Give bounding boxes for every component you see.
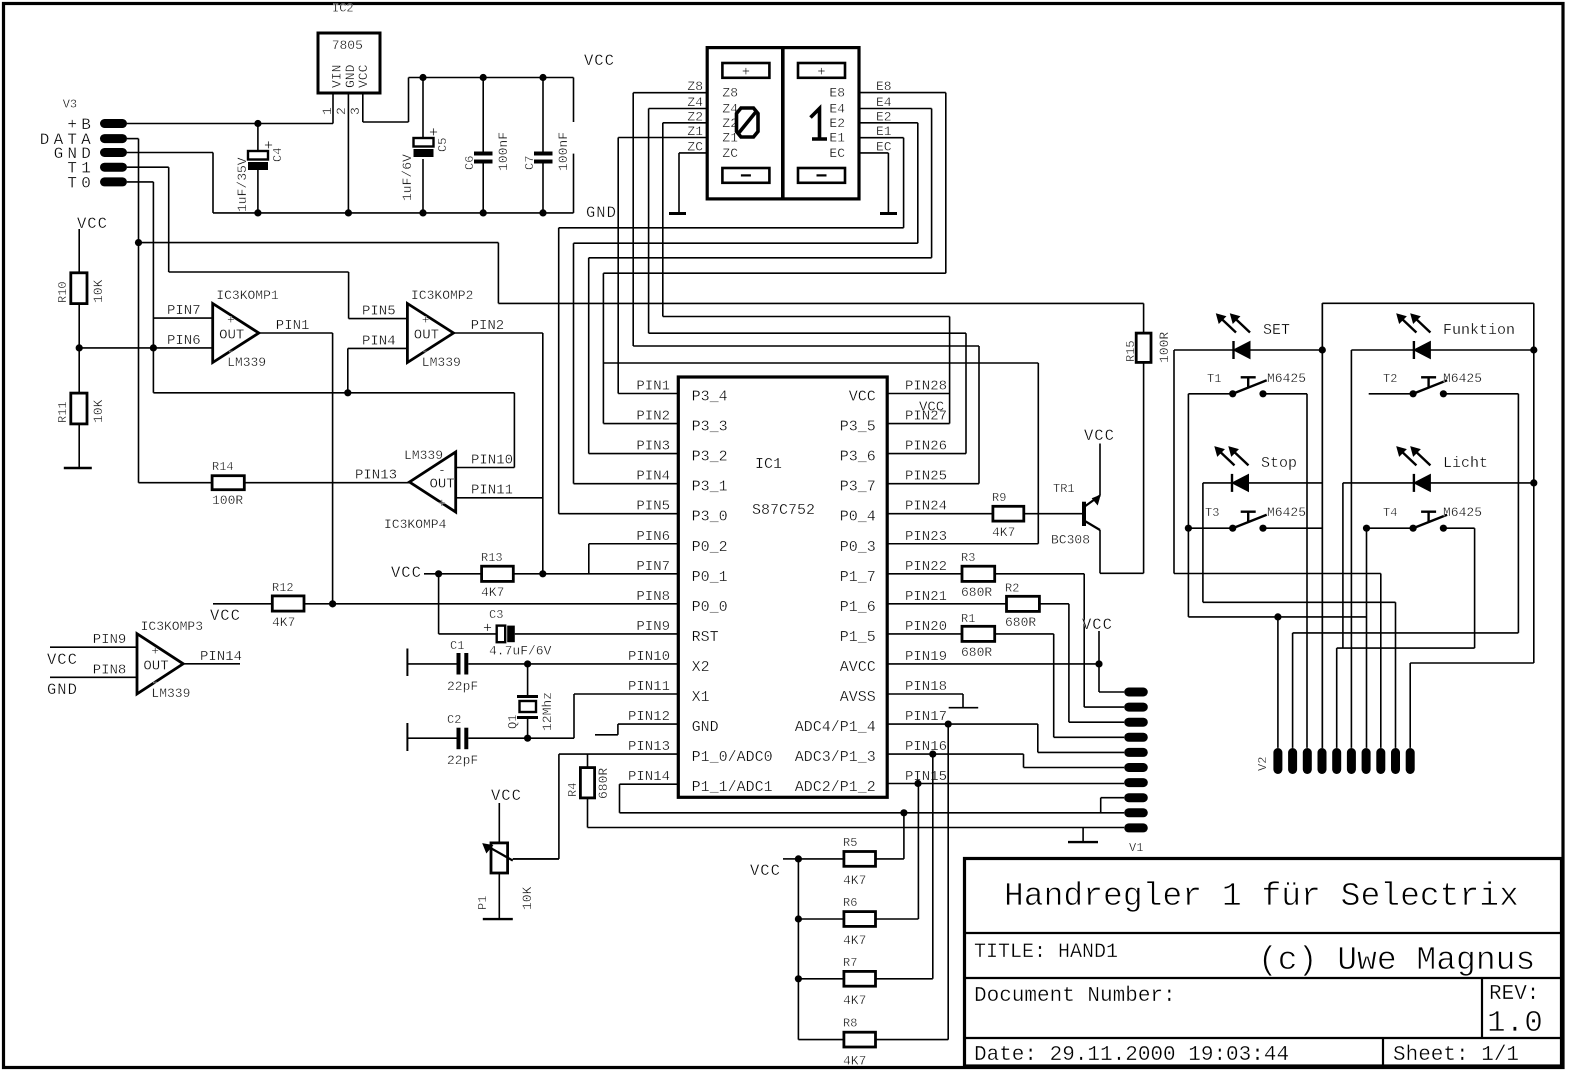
- svg-text:PIN13: PIN13: [628, 739, 670, 755]
- svg-text:PIN20: PIN20: [905, 619, 947, 635]
- svg-text:PIN26: PIN26: [905, 439, 947, 455]
- svg-text:SET: SET: [1263, 322, 1290, 339]
- svg-text:ZC: ZC: [722, 146, 738, 161]
- svg-text:T1: T1: [1207, 372, 1221, 386]
- svg-text:PIN23: PIN23: [905, 529, 947, 545]
- svg-text:10K: 10K: [91, 279, 106, 303]
- svg-text:IC3KOMP4: IC3KOMP4: [384, 517, 447, 532]
- svg-text:IC2: IC2: [332, 2, 354, 16]
- svg-text:PIN19: PIN19: [905, 649, 947, 665]
- svg-text:E8: E8: [829, 86, 845, 101]
- svg-text:M6425: M6425: [1443, 371, 1482, 386]
- svg-text:R7: R7: [843, 956, 857, 970]
- svg-text:+: +: [422, 313, 430, 328]
- svg-text:T3: T3: [1205, 506, 1219, 520]
- svg-text:R15: R15: [1124, 340, 1138, 362]
- svg-text:PIN22: PIN22: [905, 559, 947, 575]
- svg-text:PIN2: PIN2: [471, 318, 505, 334]
- svg-text:4K7: 4K7: [843, 1054, 866, 1069]
- svg-text:C4: C4: [271, 148, 285, 162]
- svg-text:P1_1/ADC1: P1_1/ADC1: [692, 779, 773, 796]
- svg-text:ADC4/P1_4: ADC4/P1_4: [795, 719, 876, 736]
- svg-text:P0_2: P0_2: [692, 539, 728, 556]
- svg-text:VCC: VCC: [356, 64, 371, 88]
- svg-text:PIN10: PIN10: [471, 453, 513, 469]
- svg-text:4K7: 4K7: [843, 933, 866, 948]
- svg-text:PIN10: PIN10: [628, 649, 670, 665]
- svg-text:100nF: 100nF: [556, 132, 571, 171]
- svg-text:PIN6: PIN6: [167, 333, 201, 349]
- svg-text:7805: 7805: [332, 38, 363, 53]
- svg-text:P3_4: P3_4: [692, 389, 728, 406]
- svg-text:E2: E2: [829, 116, 845, 131]
- svg-text:100nF: 100nF: [496, 132, 511, 171]
- svg-text:VCC: VCC: [849, 389, 876, 406]
- svg-text:PIN18: PIN18: [905, 679, 947, 695]
- svg-text:100R: 100R: [212, 493, 243, 508]
- svg-text:LM339: LM339: [227, 355, 266, 370]
- svg-text:Stop: Stop: [1261, 455, 1297, 472]
- svg-text:R2: R2: [1005, 582, 1019, 596]
- svg-text:PIN14: PIN14: [628, 769, 670, 785]
- svg-text:R10: R10: [56, 281, 70, 303]
- svg-text:PIN7: PIN7: [167, 303, 201, 319]
- svg-text:P3_1: P3_1: [692, 479, 728, 496]
- svg-text:VCC: VCC: [491, 787, 522, 805]
- svg-text:P3_6: P3_6: [840, 449, 876, 466]
- svg-text:E4: E4: [829, 102, 845, 117]
- svg-text:REV:: REV:: [1489, 983, 1539, 1006]
- svg-text:ADC3/P1_3: ADC3/P1_3: [795, 749, 876, 766]
- svg-text:PIN2: PIN2: [636, 409, 670, 425]
- svg-text:E1: E1: [876, 124, 892, 139]
- svg-text:R5: R5: [843, 836, 857, 850]
- svg-text:PIN4: PIN4: [362, 333, 396, 349]
- svg-text:X1: X1: [692, 689, 710, 706]
- svg-text:OUT: OUT: [414, 328, 439, 344]
- svg-text:P1_7: P1_7: [840, 569, 876, 586]
- svg-text:22pF: 22pF: [447, 753, 478, 768]
- svg-text:AVSS: AVSS: [840, 689, 876, 706]
- svg-text:IC3KOMP3: IC3KOMP3: [141, 619, 203, 634]
- svg-text:P0_3: P0_3: [840, 539, 876, 556]
- svg-text:P1_5: P1_5: [840, 629, 876, 646]
- svg-text:Document Number:: Document Number:: [974, 985, 1176, 1008]
- svg-text:VCC: VCC: [47, 651, 78, 669]
- svg-text:TITLE: HAND1: TITLE: HAND1: [974, 941, 1118, 964]
- svg-text:P0_4: P0_4: [840, 509, 876, 526]
- svg-text:RST: RST: [692, 629, 719, 646]
- svg-text:Handregler 1 für Selectrix: Handregler 1 für Selectrix: [1004, 878, 1519, 915]
- svg-text:P0_1: P0_1: [692, 569, 728, 586]
- svg-text:PIN8: PIN8: [636, 589, 670, 605]
- svg-text:4K7: 4K7: [481, 585, 504, 600]
- svg-text:E1: E1: [829, 131, 845, 146]
- svg-text:LM339: LM339: [404, 448, 443, 463]
- svg-text:1uF/35V: 1uF/35V: [235, 157, 250, 212]
- svg-text:PIN11: PIN11: [471, 483, 513, 499]
- svg-text:2: 2: [334, 107, 349, 115]
- svg-text:T4: T4: [1383, 506, 1397, 520]
- svg-text:PIN4: PIN4: [636, 469, 670, 485]
- svg-text:IC1: IC1: [755, 456, 782, 473]
- svg-text:Z8: Z8: [722, 86, 738, 101]
- svg-text:X2: X2: [692, 659, 710, 676]
- svg-text:Licht: Licht: [1443, 455, 1488, 472]
- svg-text:PIN28: PIN28: [905, 379, 947, 395]
- svg-text:IC3KOMP2: IC3KOMP2: [411, 288, 473, 303]
- svg-text:R14: R14: [212, 460, 234, 474]
- svg-text:R3: R3: [961, 551, 975, 565]
- svg-text:R6: R6: [843, 896, 857, 910]
- svg-text:4K7: 4K7: [843, 993, 866, 1008]
- svg-text:OUT: OUT: [219, 328, 244, 344]
- svg-text:R9: R9: [992, 491, 1006, 505]
- svg-text:1.0: 1.0: [1487, 1006, 1543, 1041]
- svg-text:+: +: [817, 65, 825, 81]
- svg-text:C3: C3: [489, 608, 503, 622]
- svg-text:PIN8: PIN8: [93, 662, 127, 678]
- svg-text:PIN9: PIN9: [93, 632, 127, 648]
- svg-text:PIN6: PIN6: [636, 529, 670, 545]
- svg-text:10K: 10K: [91, 399, 106, 423]
- svg-text:LM339: LM339: [151, 686, 190, 701]
- svg-text:Sheet: 1/1: Sheet: 1/1: [1393, 1044, 1519, 1067]
- svg-text:PIN12: PIN12: [628, 709, 670, 725]
- svg-text:680R: 680R: [961, 645, 992, 660]
- svg-text:BC308: BC308: [1051, 533, 1090, 548]
- svg-text:P3_2: P3_2: [692, 449, 728, 466]
- svg-text:12Mhz: 12Mhz: [540, 692, 555, 731]
- svg-text:R12: R12: [272, 581, 294, 595]
- svg-text:4K7: 4K7: [272, 615, 295, 630]
- svg-text:Funktion: Funktion: [1443, 322, 1515, 339]
- svg-text:680R: 680R: [596, 768, 611, 799]
- svg-text:C7: C7: [523, 156, 537, 170]
- svg-text:P3_3: P3_3: [692, 419, 728, 436]
- svg-text:T2: T2: [1383, 372, 1397, 386]
- svg-text:P0_0: P0_0: [692, 599, 728, 616]
- svg-text:Date: 29.11.2000 19:03:44: Date: 29.11.2000 19:03:44: [974, 1044, 1289, 1067]
- svg-text:R11: R11: [56, 401, 70, 423]
- svg-text:VCC: VCC: [1082, 616, 1113, 634]
- svg-text:PIN21: PIN21: [905, 589, 947, 605]
- svg-text:+: +: [438, 496, 446, 511]
- svg-text:+: +: [742, 65, 750, 81]
- svg-text:P3_0: P3_0: [692, 509, 728, 526]
- svg-text:M6425: M6425: [1267, 371, 1306, 386]
- svg-text:V3: V3: [63, 98, 77, 112]
- svg-text:3: 3: [348, 107, 363, 115]
- svg-text:1uF/6V: 1uF/6V: [400, 154, 415, 201]
- svg-text:+: +: [483, 621, 492, 638]
- svg-text:4K7: 4K7: [992, 525, 1015, 540]
- svg-text:Q1: Q1: [506, 715, 520, 729]
- svg-text:AVCC: AVCC: [840, 659, 876, 676]
- svg-text:PIN17: PIN17: [905, 709, 947, 725]
- svg-text:PIN24: PIN24: [905, 499, 947, 515]
- svg-text:PIN16: PIN16: [905, 739, 947, 755]
- svg-text:EC: EC: [829, 146, 845, 161]
- svg-text:+: +: [227, 313, 235, 328]
- svg-text:R13: R13: [481, 551, 503, 565]
- svg-text:GND: GND: [692, 719, 719, 736]
- svg-text:10K: 10K: [520, 886, 535, 910]
- svg-text:GND: GND: [47, 681, 78, 699]
- svg-text:M6425: M6425: [1267, 505, 1306, 520]
- svg-text:P3_5: P3_5: [840, 419, 876, 436]
- svg-text:GND: GND: [586, 204, 617, 222]
- svg-text:PIN1: PIN1: [636, 379, 670, 395]
- svg-text:IC3KOMP1: IC3KOMP1: [216, 288, 279, 303]
- svg-text:VCC: VCC: [1084, 427, 1115, 445]
- svg-text:M6425: M6425: [1443, 505, 1482, 520]
- svg-text:C5: C5: [436, 138, 450, 152]
- svg-text:680R: 680R: [1005, 615, 1036, 630]
- svg-text:PIN13: PIN13: [355, 468, 397, 484]
- svg-text:OUT: OUT: [143, 658, 168, 674]
- svg-text:PIN9: PIN9: [636, 619, 670, 635]
- svg-text:PIN25: PIN25: [905, 469, 947, 485]
- svg-text:PIN3: PIN3: [636, 439, 670, 455]
- svg-text:PIN7: PIN7: [636, 559, 670, 575]
- svg-text:VCC: VCC: [391, 564, 422, 582]
- svg-text:TR1: TR1: [1053, 482, 1075, 496]
- svg-text:+: +: [151, 643, 159, 658]
- svg-text:R1: R1: [961, 612, 975, 626]
- svg-text:P1: P1: [476, 896, 490, 910]
- svg-text:T0: T0: [67, 174, 95, 192]
- svg-text:P1_6: P1_6: [840, 599, 876, 616]
- svg-text:ADC2/P1_2: ADC2/P1_2: [795, 779, 876, 796]
- svg-text:R8: R8: [843, 1017, 857, 1031]
- svg-text:V1: V1: [1129, 841, 1143, 855]
- svg-text:4K7: 4K7: [843, 873, 866, 888]
- svg-text:S87C752: S87C752: [752, 502, 815, 519]
- svg-text:PIN14: PIN14: [200, 649, 242, 665]
- svg-text:VCC: VCC: [750, 862, 781, 880]
- svg-text:22pF: 22pF: [447, 679, 478, 694]
- svg-text:100R: 100R: [1157, 332, 1172, 363]
- svg-text:OUT: OUT: [430, 477, 455, 493]
- svg-text:VCC: VCC: [210, 607, 241, 625]
- svg-text:LM339: LM339: [422, 355, 461, 370]
- svg-text:C2: C2: [447, 713, 461, 727]
- svg-text:P3_7: P3_7: [840, 479, 876, 496]
- svg-text:C1: C1: [450, 639, 464, 653]
- svg-text:680R: 680R: [961, 585, 992, 600]
- svg-text:VCC: VCC: [77, 215, 108, 233]
- svg-text:R4: R4: [566, 783, 580, 797]
- svg-text:VCC: VCC: [919, 400, 944, 416]
- svg-text:PIN11: PIN11: [628, 679, 670, 695]
- svg-text:P1_0/ADC0: P1_0/ADC0: [692, 749, 773, 766]
- svg-text:PIN5: PIN5: [362, 304, 396, 320]
- svg-text:V2: V2: [1256, 757, 1270, 771]
- svg-text:(c) Uwe Magnus: (c) Uwe Magnus: [1258, 942, 1535, 979]
- svg-text:PIN5: PIN5: [636, 499, 670, 515]
- svg-text:PIN1: PIN1: [276, 318, 310, 334]
- svg-text:VCC: VCC: [584, 52, 615, 70]
- svg-text:C6: C6: [463, 156, 477, 170]
- svg-text:4.7uF/6V: 4.7uF/6V: [489, 644, 552, 659]
